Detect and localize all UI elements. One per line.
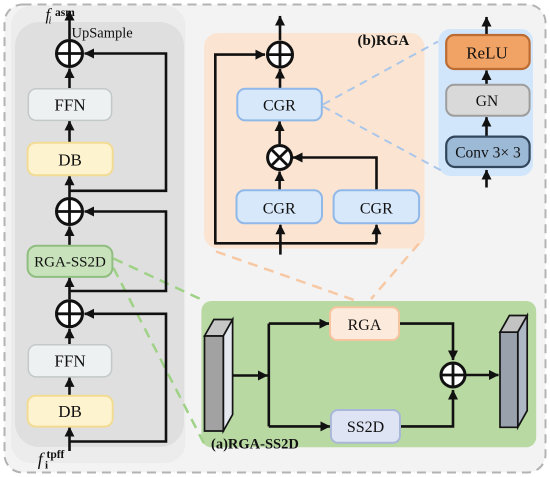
- svg-text:RGA: RGA: [348, 317, 382, 334]
- dashed link orange right: [371, 244, 419, 300]
- feature map bar (right): [500, 316, 527, 428]
- svg-text:FFN: FFN: [54, 96, 85, 115]
- adder (RGA top circle-plus): [268, 42, 293, 67]
- block CGR (top): [237, 89, 321, 121]
- svg-text:Conv 3× 3: Conv 3× 3: [455, 144, 521, 161]
- svg-text:FFN: FFN: [54, 352, 85, 371]
- wire: adder1 to f asm output: [68, 11, 71, 39]
- panel: left ASM block outer: [11, 6, 186, 463]
- svg-text:i: i: [49, 16, 52, 27]
- wire: residual loop3 input to adder3: [70, 314, 167, 442]
- svg-text:(a)RGA-SS2D: (a)RGA-SS2D: [211, 437, 299, 453]
- wire: residual loop1 to adder1: [70, 54, 167, 191]
- wire: RGA-SS2D to adder2: [68, 227, 71, 246]
- wire: CGR bottom-right to multiplier: [293, 158, 377, 191]
- wire: DB1 to FFN1: [68, 121, 71, 143]
- wire: merge adder to right bar: [466, 374, 499, 377]
- svg-text:GN: GN: [476, 93, 498, 110]
- wire: multiplier to CGR top: [278, 122, 281, 145]
- block DB (upper): [28, 143, 113, 176]
- svg-text:i: i: [45, 460, 48, 472]
- wire: blue panel input: [485, 170, 488, 188]
- dashed link green lower: [114, 268, 205, 444]
- wire: DB2 to FFN2: [68, 377, 71, 395]
- wire: adder2 to DB1: [68, 176, 71, 197]
- block SS2D: [331, 410, 400, 443]
- wire: RGA to merge adder: [399, 324, 453, 360]
- svg-text:ReLU: ReLU: [466, 44, 508, 63]
- dashed link green upper: [114, 259, 204, 301]
- dashed link orange left: [216, 252, 354, 301]
- wire: RGA bottom bus: [215, 242, 376, 245]
- adder3 (lower circle-plus): [57, 301, 83, 327]
- block DB (lower): [28, 396, 113, 427]
- wire: split to SS2D: [269, 425, 330, 428]
- panel: (b) RGA: [204, 33, 425, 249]
- svg-text:SS2D: SS2D: [347, 419, 384, 436]
- block CGR (bottom-left): [237, 190, 323, 223]
- wire: ReLU to output: [485, 17, 488, 35]
- merge adder (green circle-plus): [441, 363, 465, 387]
- wire: Conv to GN: [485, 117, 488, 136]
- block Conv 3x3: [446, 137, 529, 167]
- svg-text:RGA-SS2D: RGA-SS2D: [34, 254, 106, 270]
- block RGA-SS2D: [28, 246, 113, 277]
- wire: RGA input stub to CGR bottom-left: [279, 225, 282, 255]
- feature map bar (left): [205, 320, 233, 432]
- label f_i^tpff: [38, 449, 65, 472]
- svg-text:DB: DB: [58, 151, 82, 170]
- adder1 (top circle-plus): [57, 41, 83, 67]
- wire: FFN1 to adder1: [68, 69, 71, 89]
- wire: FFN2 to adder3: [68, 329, 71, 345]
- dashed link blue lower: [323, 107, 444, 173]
- wire: CGR top to adder: [279, 69, 282, 89]
- svg-text:UpSample: UpSample: [72, 25, 133, 41]
- svg-text:asm: asm: [55, 7, 75, 19]
- wire: left bar to split node: [233, 374, 268, 377]
- panel: (a) RGA-SS2D: [201, 301, 536, 447]
- label f_i^asm: [46, 5, 76, 27]
- panel: left ASM block inner: [15, 22, 184, 447]
- wire: GN to ReLU: [485, 71, 488, 85]
- adder2 (middle circle-plus): [57, 199, 83, 225]
- wire: split vertical: [267, 324, 270, 427]
- block ReLU: [446, 35, 529, 69]
- svg-text:tpff: tpff: [47, 449, 65, 461]
- svg-text:(b)RGA: (b)RGA: [358, 33, 410, 49]
- svg-text:CGR: CGR: [263, 98, 296, 115]
- wire: CGR bottom-left to multiplier: [278, 172, 281, 191]
- multiplier (circle-times): [268, 146, 292, 170]
- wire: RGA right branch to CGR bottom-right: [375, 225, 378, 244]
- svg-text:DB: DB: [58, 402, 82, 421]
- wire: adder3 to RGA-SS2D: [68, 278, 71, 300]
- wire: residual loop2 to adder2: [70, 212, 167, 292]
- wire: split to RGA: [269, 322, 329, 325]
- dashed link blue upper: [323, 42, 438, 105]
- block FFN (lower): [28, 345, 111, 377]
- block RGA (small): [330, 307, 399, 340]
- block FFN (upper): [28, 89, 111, 121]
- panel: CGR detail (blue): [439, 29, 534, 176]
- svg-text:CGR: CGR: [360, 201, 393, 218]
- wire: input f tpff to DB2: [68, 427, 71, 451]
- wire: RGA left residual to adder: [215, 55, 265, 245]
- block GN: [446, 85, 529, 116]
- svg-text:CGR: CGR: [263, 201, 296, 218]
- wire: SS2D to merge adder: [400, 390, 453, 426]
- block CGR (bottom-right): [334, 190, 420, 223]
- wire: RGA adder to output: [279, 16, 282, 40]
